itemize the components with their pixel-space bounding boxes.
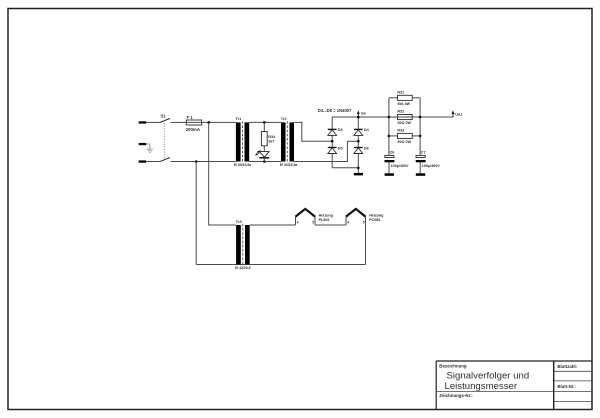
svg-text:100µ/400V: 100µ/400V bbox=[391, 164, 409, 168]
svg-text:Bezeichnung: Bezeichnung bbox=[439, 363, 467, 368]
wire mains drop to Tr3 primary top bbox=[209, 122, 236, 225]
svg-text:Blatt-Nr.:: Blatt-Nr.: bbox=[557, 384, 576, 389]
diode D6 bbox=[354, 146, 369, 153]
svg-text:Tr1: Tr1 bbox=[236, 116, 243, 121]
wire DC plus rail bbox=[332, 116, 453, 118]
wire N to switch bbox=[146, 161, 159, 163]
svg-text:Blattzahl:: Blattzahl: bbox=[557, 364, 577, 369]
svg-text:Zeichnungs-Nr.:: Zeichnungs-Nr.: bbox=[439, 393, 473, 398]
node fuse output junction bbox=[207, 121, 210, 124]
ground C6 bbox=[385, 173, 394, 176]
svg-text:D3: D3 bbox=[338, 128, 343, 132]
switch S1 pole 1 bbox=[160, 114, 187, 123]
transformer Tr3 bbox=[235, 219, 251, 270]
wire Tr3 secondary to plug 1 bbox=[250, 224, 296, 226]
note D3...D6 = 1N4007 bbox=[318, 108, 352, 113]
node bridge AC1 junction bbox=[331, 140, 334, 143]
wire Tr2 to bridge AC2 bbox=[294, 141, 358, 161]
svg-text:R34: R34 bbox=[268, 135, 276, 139]
svg-text:5: 5 bbox=[312, 220, 314, 224]
connector heater PC86 bbox=[346, 209, 383, 225]
wire left bus bbox=[388, 98, 390, 156]
diode D4 bbox=[354, 128, 370, 135]
svg-text:R33: R33 bbox=[397, 129, 404, 133]
wire Tr2 to bridge AC1 bbox=[294, 122, 332, 141]
wire fuse to Tr1 bbox=[202, 121, 236, 123]
node R33 left junction bbox=[388, 135, 391, 138]
ground bridge bbox=[354, 173, 363, 176]
svg-text:50Ω 2W: 50Ω 2W bbox=[397, 140, 411, 144]
switch S1 pole 2 bbox=[160, 158, 236, 162]
svg-text:EI 42/29,5: EI 42/29,5 bbox=[235, 266, 251, 270]
node LED bottom junction bbox=[263, 160, 266, 163]
wire L to switch bbox=[146, 121, 159, 123]
node rail left bus bbox=[388, 116, 391, 119]
svg-text:Leistungsmesser: Leistungsmesser bbox=[445, 381, 518, 392]
wire mains drop to Tr3 primary bottom bbox=[195, 162, 197, 265]
node Ua arrow bbox=[357, 110, 367, 116]
node rail right bus bbox=[419, 116, 422, 119]
svg-text:F 1: F 1 bbox=[187, 115, 194, 120]
svg-text:2k7: 2k7 bbox=[268, 140, 274, 144]
switch link (dotted) bbox=[164, 121, 166, 160]
svg-text:5: 5 bbox=[363, 220, 365, 224]
svg-text:200mA: 200mA bbox=[186, 127, 201, 132]
svg-text:EI 30/15,5a: EI 30/15,5a bbox=[234, 163, 251, 167]
wire right bus bbox=[419, 98, 421, 156]
svg-text:S1: S1 bbox=[161, 114, 167, 119]
svg-text:R31: R31 bbox=[397, 90, 404, 94]
wire heater bottom rail bbox=[196, 264, 365, 266]
node bridge AC2 junction bbox=[357, 140, 360, 143]
svg-text:Signalverfolger und: Signalverfolger und bbox=[447, 371, 530, 382]
transformer Tr1 bbox=[234, 116, 251, 167]
wire bridge bottom link bbox=[332, 167, 358, 169]
fuse F1 bbox=[186, 115, 202, 132]
earth ground symbol bbox=[146, 144, 153, 153]
node rail at bridge bbox=[357, 116, 360, 119]
wire plug1 to plug2 bbox=[315, 224, 346, 226]
svg-text:PC086: PC086 bbox=[369, 218, 380, 222]
transformer Tr2 bbox=[280, 116, 297, 167]
node bridge minus junction bbox=[357, 167, 360, 170]
svg-text:4: 4 bbox=[297, 220, 299, 224]
resistor R34 bbox=[261, 122, 276, 151]
mains connector terminal N bbox=[139, 160, 147, 162]
connector heater PL802 bbox=[296, 209, 333, 225]
LED D7 bbox=[255, 150, 269, 161]
node Ua1 arrow bbox=[452, 110, 463, 117]
resistor R32 bbox=[397, 110, 412, 126]
svg-text:R32: R32 bbox=[397, 110, 404, 114]
resistor R31 bbox=[389, 90, 420, 106]
mains connector terminal L bbox=[139, 121, 147, 123]
node R34 top junction bbox=[263, 121, 266, 124]
node R33 right junction bbox=[419, 135, 422, 138]
capacitor C7 bbox=[416, 150, 441, 173]
svg-text:100µ/400V: 100µ/400V bbox=[422, 164, 440, 168]
resistor R33 bbox=[389, 129, 420, 145]
wire bridge right leg bbox=[357, 117, 359, 173]
svg-text:D6: D6 bbox=[364, 146, 369, 150]
wire bridge left leg bbox=[331, 117, 333, 168]
svg-text:EI 30/15,5a: EI 30/15,5a bbox=[280, 163, 297, 167]
svg-text:PL802: PL802 bbox=[319, 218, 330, 222]
svg-text:D3...D6 = 1N4007: D3...D6 = 1N4007 bbox=[318, 108, 352, 113]
svg-text:4: 4 bbox=[347, 220, 349, 224]
diode D5 bbox=[328, 146, 343, 153]
svg-text:5k6 4W: 5k6 4W bbox=[397, 102, 410, 106]
capacitor C6 bbox=[385, 150, 410, 173]
svg-text:C6: C6 bbox=[390, 150, 395, 154]
svg-text:D5: D5 bbox=[338, 146, 343, 150]
wire Tr1 to Tr2 top bbox=[249, 121, 281, 123]
svg-text:Tr3: Tr3 bbox=[236, 219, 243, 224]
svg-text:C7: C7 bbox=[421, 150, 426, 154]
svg-text:Ua1: Ua1 bbox=[455, 113, 462, 117]
svg-text:50Ω 2W: 50Ω 2W bbox=[397, 121, 411, 125]
title block bbox=[436, 361, 592, 409]
ground C7 bbox=[416, 173, 425, 176]
mains connector terminal PE bbox=[139, 143, 147, 145]
wire Tr1 to Tr2 bottom bbox=[249, 161, 281, 163]
diode D3 bbox=[328, 128, 343, 135]
svg-text:Tr2: Tr2 bbox=[281, 116, 288, 121]
wire plug2 return bbox=[365, 225, 367, 265]
node bottom line junction bbox=[195, 160, 198, 163]
